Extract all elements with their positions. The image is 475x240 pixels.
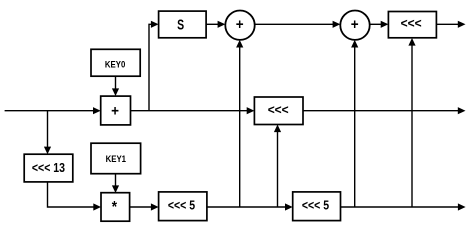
- svg-text:<<< 13: <<< 13: [32, 160, 65, 175]
- KEY1 box: [91, 143, 141, 174]
- wire branch up to S box: [149, 24, 153, 110]
- svg-text:*: *: [112, 199, 117, 216]
- KEY0 box: [91, 49, 140, 76]
- rotate left 5 box 2: [293, 192, 341, 221]
- wire bottom line up to top rotate box: [411, 45, 413, 207]
- wire bottom line up to adder circle 2: [354, 47, 356, 207]
- wire branch down to shift13: [47, 111, 49, 148]
- adder circle 1: [225, 11, 254, 40]
- svg-text:KEY1: KEY1: [106, 154, 127, 165]
- adder box: [101, 96, 131, 125]
- svg-text:+: +: [236, 16, 244, 33]
- wire input middle row: [5, 110, 94, 112]
- svg-text:<<< 5: <<< 5: [168, 198, 195, 213]
- svg-text:<<<: <<<: [401, 16, 422, 31]
- svg-text:KEY0: KEY0: [105, 59, 125, 70]
- wire KEY0 to adder box: [115, 76, 117, 89]
- S-box U1: [159, 11, 207, 38]
- svg-text:+: +: [351, 16, 359, 33]
- wire middle row output: [303, 110, 459, 112]
- wire adder circle 2 to top rotate box: [370, 23, 382, 25]
- wire shift13 down and right to multiplier box: [48, 182, 95, 207]
- wire bottom line up to adder circle 1: [239, 47, 241, 207]
- wire top row output: [436, 23, 459, 25]
- rotate left 5 box 1: [159, 192, 207, 221]
- middle rotate box: [254, 97, 303, 125]
- wire S box to adder circle 1: [206, 23, 219, 25]
- svg-text:<<<: <<<: [268, 102, 289, 117]
- top rotate box: [388, 12, 436, 38]
- wire KEY1 to multiplier box: [115, 174, 117, 187]
- wire adder box output to middle rotate box: [131, 110, 249, 112]
- adder circle 2: [340, 11, 369, 40]
- wire rotate5 box 1 to rotate5 box 2: [207, 206, 287, 208]
- svg-text:<<< 5: <<< 5: [302, 198, 329, 213]
- wire bottom line up to middle rotate box: [277, 131, 279, 207]
- rotate left 13 box: [24, 154, 73, 182]
- svg-text:S: S: [177, 15, 184, 32]
- wire adder circle 1 to adder circle 2: [255, 23, 334, 25]
- wire bottom row output: [341, 206, 460, 208]
- wire multiplier output to rotate5 box 1: [130, 206, 153, 208]
- svg-text:+: +: [111, 103, 119, 120]
- multiplier box: [101, 193, 130, 222]
